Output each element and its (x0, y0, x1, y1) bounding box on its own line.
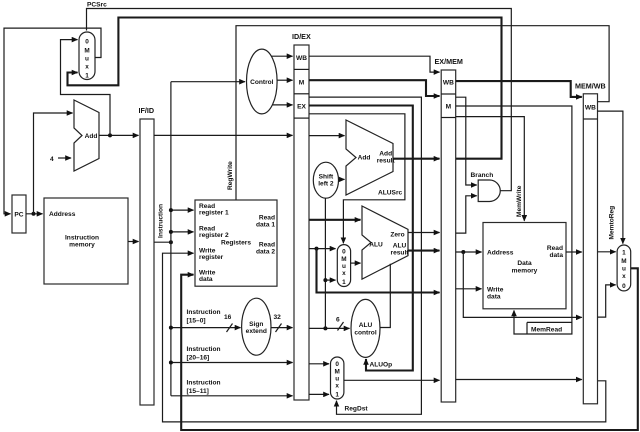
svg-text:Add: Add (379, 151, 392, 158)
wire RegDst select (309, 97, 421, 414)
svg-text:ALU: ALU (359, 322, 373, 329)
wire read data 2 down to EX/MEM write data (317, 249, 440, 293)
svg-text:4: 4 (50, 156, 54, 163)
svg-text:register 2: register 2 (199, 232, 229, 239)
instruction memory (44, 198, 128, 284)
svg-text:EX/MEM: EX/MEM (435, 57, 463, 66)
svg-text:16: 16 (224, 314, 232, 321)
mux ALUSrc (337, 245, 350, 287)
svg-text:IF/ID: IF/ID (139, 106, 155, 115)
wire PC+4 to mux M1 input 0 (61, 40, 111, 136)
label Branch (471, 172, 494, 179)
svg-text:Data: Data (517, 260, 532, 267)
wire Control to ID/EX WB (271, 55, 292, 57)
svg-text:1: 1 (622, 250, 626, 257)
wire PCSrc from AND gate to PC mux select (87, 9, 512, 191)
label ALUOp (370, 362, 393, 369)
svg-text:M: M (335, 369, 340, 376)
memory data memory (483, 223, 566, 309)
wire write data from MemtoReg mux (181, 268, 638, 430)
wire ALU result to data memory address (456, 250, 482, 254)
svg-text:Zero: Zero (390, 232, 404, 239)
svg-text:M: M (299, 80, 305, 87)
label ALUSrc (378, 190, 403, 197)
svg-text:6: 6 (336, 317, 340, 324)
svg-text:RegDst: RegDst (345, 406, 369, 413)
svg-text:data: data (199, 276, 213, 283)
wire PC+4 ID/EX to branch Add (309, 135, 345, 137)
wire WB control EX/MEM to MEM/WB (456, 81, 582, 97)
wire instruction memory out (128, 241, 139, 243)
svg-text:Instruction: Instruction (187, 309, 221, 316)
svg-text:ALUSrc: ALUSrc (378, 190, 403, 197)
svg-text:Shift: Shift (319, 174, 334, 181)
svg-text:M: M (84, 48, 89, 55)
wire shift left 2 to Add (339, 178, 345, 180)
svg-text:Write: Write (487, 287, 504, 294)
svg-text:[20–16]: [20–16] (187, 355, 210, 362)
svg-text:Instruction: Instruction (187, 380, 221, 387)
svg-text:data 2: data 2 (256, 249, 275, 256)
wire read data to MEM/WB (566, 251, 582, 253)
svg-text:register 1: register 1 (199, 210, 229, 217)
wire write register from MEM/WB number (163, 253, 606, 422)
svg-text:ALU: ALU (369, 242, 383, 249)
svg-text:memory: memory (512, 268, 538, 275)
wire read data 1 to ALU (309, 219, 361, 221)
wire ALU result pass to MEM/WB (463, 252, 582, 317)
svg-text:control: control (354, 330, 377, 337)
svg-text:result: result (391, 250, 410, 257)
svg-text:Instruction: Instruction (187, 346, 221, 353)
svg-text:RegWrite: RegWrite (227, 161, 234, 190)
wire read register 1 (169, 208, 194, 212)
wire immediate to ALUSrc mux input 1 (325, 279, 335, 281)
svg-text:ALUOp: ALUOp (370, 362, 393, 369)
wire read data to MemtoReg mux input 1 (598, 251, 616, 253)
svg-text:0: 0 (85, 39, 89, 46)
mux MemtoReg (617, 245, 631, 291)
wire instruction 15-11 to ID/EX (171, 395, 293, 397)
label 32 with slash (274, 314, 282, 332)
wire RegWrite from MEM/WB to registers (236, 26, 609, 200)
svg-text:1: 1 (85, 73, 89, 80)
svg-text:u: u (342, 263, 346, 270)
wire Zero from EX/MEM to AND gate (456, 196, 477, 233)
wire immediate up to mux and shift left 2 (323, 198, 327, 328)
wire instruction 20-16 to ID/EX (169, 361, 293, 365)
svg-text:WB: WB (585, 105, 596, 112)
svg-text:left 2: left 2 (318, 181, 334, 188)
wire ALUSrc select (309, 114, 405, 243)
wire instruction bus vertical (170, 82, 172, 396)
svg-text:Add: Add (85, 133, 98, 140)
label 6 with slash (336, 317, 344, 331)
label MemRead with box (527, 322, 572, 334)
svg-text:EX: EX (297, 104, 306, 111)
svg-text:Registers: Registers (221, 240, 251, 247)
svg-text:extend: extend (246, 328, 267, 335)
register EX/MEM (435, 57, 463, 402)
wire read data 2 to ALUSrc mux (309, 247, 336, 251)
wire Add result to EX/MEM (393, 158, 440, 160)
svg-text:0: 0 (335, 361, 339, 368)
svg-text:x: x (335, 383, 339, 390)
wire M control ID/EX to EX/MEM (309, 80, 440, 96)
wire MemWrite to data memory (456, 117, 525, 221)
label PCSrc (87, 2, 107, 9)
wire Add out (PC+4) to IF/ID (99, 133, 139, 137)
svg-text:Read: Read (547, 245, 563, 252)
wire PC+4 from IF/ID to ID/EX (154, 134, 293, 136)
svg-text:x: x (342, 270, 346, 277)
wire ALU result to MemtoReg mux input 0 (598, 285, 616, 317)
adder Add (branch target) (346, 120, 395, 195)
svg-text:WB: WB (443, 80, 454, 87)
wire register number EX/MEM to MEM/WB (456, 379, 582, 381)
svg-text:data 1: data 1 (256, 222, 275, 229)
svg-text:Branch: Branch (471, 172, 494, 179)
svg-text:0: 0 (342, 249, 346, 256)
wire instruction 20-16 to RegDst mux input 0 (309, 363, 329, 365)
wire branch target from EX/MEM to mux M1 input 1 (68, 18, 502, 159)
svg-text:Instruction: Instruction (158, 204, 165, 238)
label 16 with slash (224, 314, 233, 332)
label Instruction [15-0] (187, 309, 221, 325)
mux RegDst (331, 357, 344, 399)
svg-text:result: result (377, 158, 396, 165)
svg-text:M: M (621, 258, 626, 265)
svg-text:u: u (335, 376, 339, 383)
wire Control to ID/EX EX (272, 104, 292, 106)
svg-text:Control: Control (250, 79, 274, 86)
svg-text:M: M (446, 104, 452, 111)
gate AND (branch and zero) (478, 180, 500, 202)
svg-text:Read: Read (259, 215, 275, 222)
svg-text:Address: Address (487, 250, 514, 257)
svg-text:M: M (341, 256, 346, 263)
wire instruction to Control (171, 81, 245, 83)
op-amp ALU (362, 206, 409, 279)
svg-text:32: 32 (274, 314, 282, 321)
oval ALU control (351, 299, 380, 357)
svg-text:data: data (549, 252, 563, 259)
svg-text:1: 1 (335, 392, 339, 399)
svg-text:WB: WB (296, 55, 307, 62)
wire MemtoReg select to mux (598, 111, 623, 244)
wire MemRead to data memory (456, 106, 572, 334)
wire Control to ID/EX M (277, 79, 293, 81)
wire read register 2 (169, 230, 194, 234)
svg-text:MemWrite: MemWrite (516, 185, 523, 217)
svg-text:Sign: Sign (249, 321, 263, 328)
wire sign extend out to ID/EX (271, 327, 293, 329)
register IF/ID (139, 106, 155, 405)
wire PC up to Add (34, 113, 73, 214)
wire instruction 15-0 to sign extend (169, 326, 241, 330)
wire ALUSrc mux to ALU (351, 262, 361, 264)
svg-text:data: data (487, 294, 501, 301)
label Instruction (vertical) (158, 204, 165, 238)
wire write data to data memory (456, 288, 482, 290)
wire ALU control to ALU (380, 264, 390, 328)
oval shift left 2 (313, 162, 338, 198)
wire 4 into Add (58, 157, 71, 159)
wire mux M1 output to PC (4, 28, 101, 214)
wire immediate to ALU control (309, 326, 350, 330)
label MemtoReg (vertical) (609, 206, 616, 240)
svg-text:[15–0]: [15–0] (187, 318, 206, 325)
svg-text:ID/EX: ID/EX (292, 32, 311, 41)
wire Zero to EX/MEM (408, 232, 440, 234)
wire EX control ALUOp to ALU control (309, 106, 413, 371)
svg-text:MemRead: MemRead (531, 327, 562, 334)
svg-text:Add: Add (358, 155, 371, 162)
svg-text:Address: Address (49, 211, 76, 218)
wire instruction 15-11 to RegDst mux input 1 (309, 393, 329, 395)
adder Add (PC+4) (74, 100, 99, 171)
svg-text:Read: Read (259, 242, 275, 249)
mux M1 (PC source mux) (79, 32, 95, 80)
label Instruction [20-16] (187, 346, 221, 362)
label MemWrite (vertical) (516, 185, 523, 217)
registers block (195, 200, 277, 286)
wire Branch control to AND gate (456, 97, 477, 185)
wire RegDst mux out to EX/MEM (344, 379, 440, 381)
svg-text:MEM/WB: MEM/WB (575, 82, 606, 91)
wire instruction out of IF/ID (154, 240, 173, 244)
svg-text:MemtoReg: MemtoReg (609, 206, 616, 240)
label Instruction [15-11] (187, 380, 221, 396)
wire WB control ID/EX to EX/MEM (309, 56, 440, 72)
oval sign extend (242, 298, 271, 355)
register PC (12, 195, 26, 233)
register ID/EX (292, 32, 311, 400)
svg-text:u: u (622, 266, 626, 273)
svg-text:1: 1 (342, 279, 346, 286)
svg-text:memory: memory (69, 242, 95, 249)
label RegDst (345, 406, 369, 413)
svg-text:0: 0 (622, 283, 626, 290)
svg-text:PCSrc: PCSrc (87, 2, 107, 9)
register MEM/WB (575, 82, 606, 404)
svg-text:PC: PC (14, 212, 23, 219)
svg-text:Instruction: Instruction (65, 235, 99, 242)
svg-text:register: register (199, 254, 224, 261)
svg-text:x: x (622, 273, 626, 280)
svg-text:ALU: ALU (393, 243, 407, 250)
label RegWrite (vertical) (227, 161, 234, 190)
oval Control (246, 49, 277, 114)
svg-text:u: u (85, 56, 89, 63)
wire ALU result to EX/MEM (408, 250, 440, 252)
svg-text:x: x (85, 64, 89, 71)
wire PC out to instruction memory (26, 212, 43, 216)
svg-text:[15–11]: [15–11] (187, 388, 209, 395)
label constant 4 (50, 156, 54, 163)
